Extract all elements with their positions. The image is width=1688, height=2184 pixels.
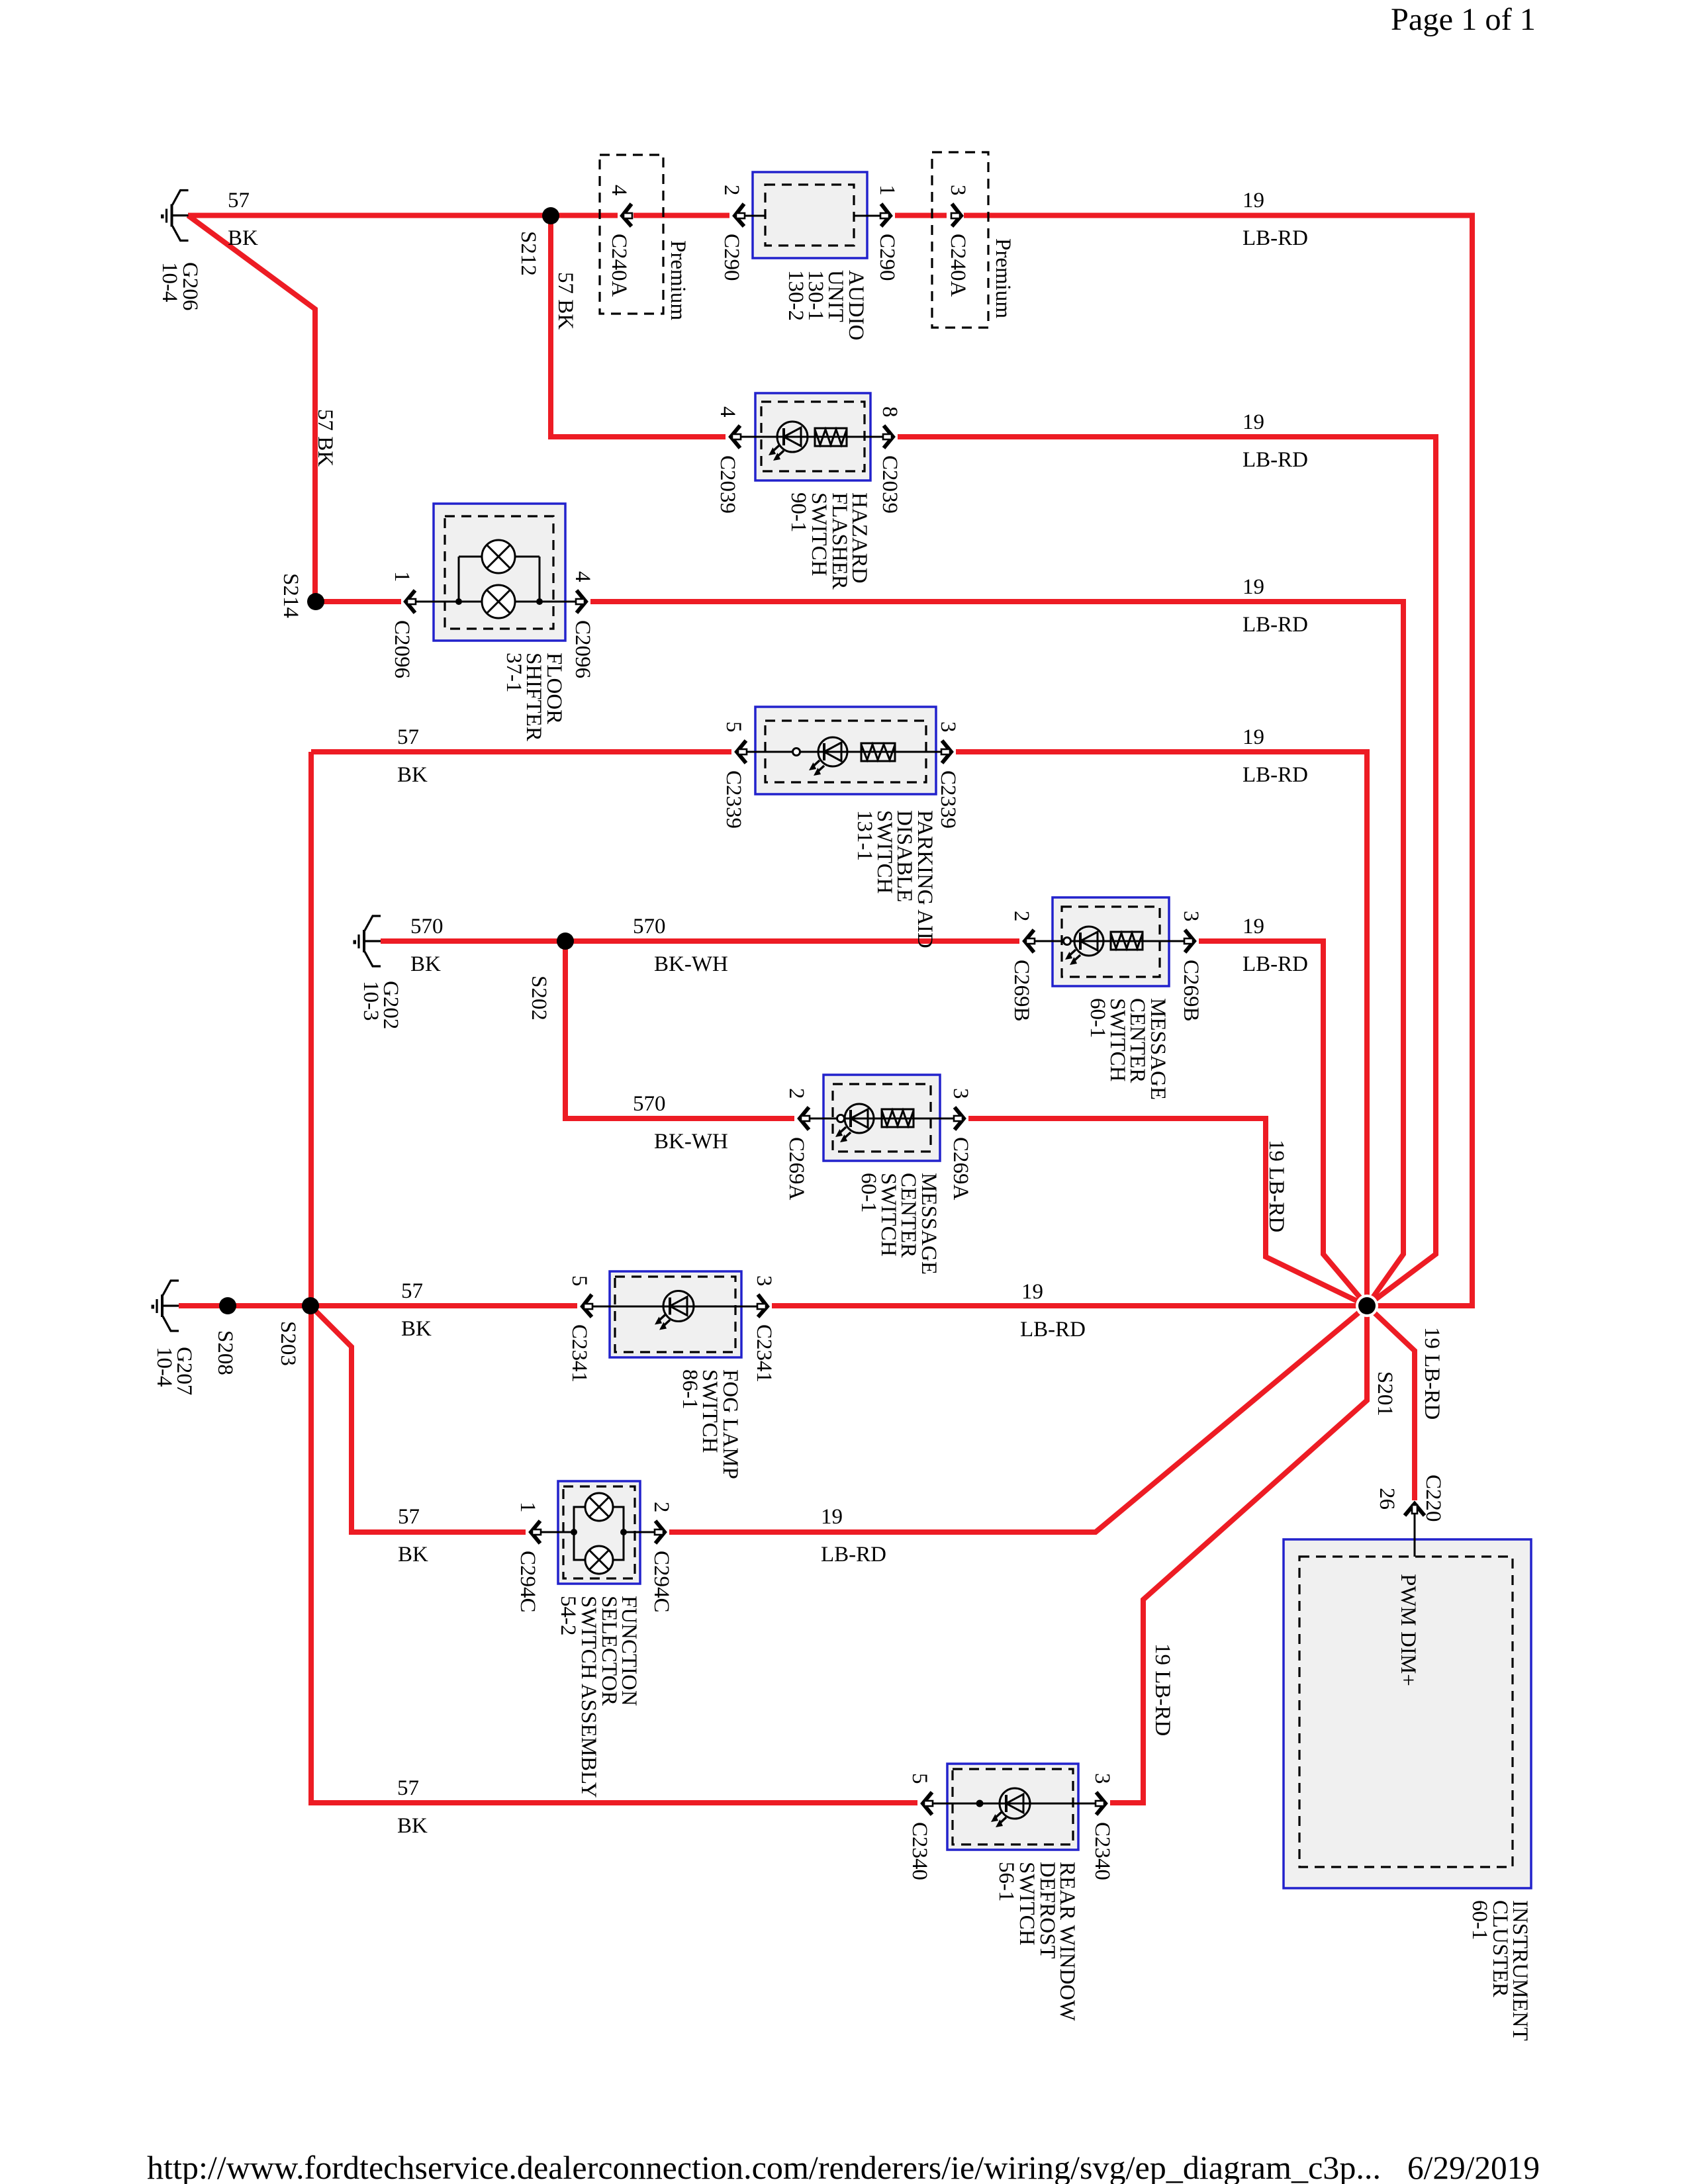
function selector branch junction left: [571, 1529, 577, 1535]
connector C2340 pin 3 arrow: [1096, 1792, 1105, 1815]
svg-text:C269B: C269B: [1179, 960, 1203, 1022]
svg-text:BK: BK: [398, 1543, 428, 1567]
LED indicator in rear defrost switch: [991, 1788, 1030, 1827]
svg-text:C2340: C2340: [908, 1822, 931, 1880]
svg-text:57 BK: 57 BK: [313, 409, 337, 467]
svg-text:5: 5: [908, 1773, 931, 1784]
svg-text:C290: C290: [720, 234, 743, 281]
component AUDIO UNIT box: [753, 172, 867, 258]
svg-text:19: 19: [1243, 189, 1264, 212]
audio pin 2 lead: [744, 215, 765, 217]
svg-text:19: 19: [1243, 410, 1264, 434]
connector C240A dashed box (right): [932, 152, 988, 328]
svg-text:Premium: Premium: [666, 240, 690, 320]
svg-text:S212: S212: [516, 231, 540, 276]
svg-text:C2096: C2096: [571, 620, 594, 678]
splice S208: [219, 1297, 236, 1314]
floor shifter lamp branch right: [539, 557, 541, 602]
LED indicator in hazard flasher switch: [769, 422, 808, 461]
fog lamp switch internal lead: [588, 1306, 757, 1308]
svg-text:1: 1: [875, 185, 899, 196]
svg-text:54-2: 54-2: [556, 1596, 580, 1636]
svg-text:LB-RD: LB-RD: [1243, 448, 1308, 472]
connector C290 pin 1 arrow: [880, 204, 890, 226]
function selector branch junction right: [620, 1529, 627, 1535]
svg-text:Page 1 of 1: Page 1 of 1: [1391, 2, 1536, 37]
svg-text:LB-RD: LB-RD: [1020, 1318, 1086, 1342]
wire: audio pin1 to C240A premium: [895, 213, 947, 218]
ground G202: [353, 916, 381, 966]
wire 19 LB-RD: S201 to instrument cluster C220: [1367, 1306, 1415, 1500]
floor shifter branch junction left: [455, 598, 462, 605]
svg-text:26: 26: [1375, 1488, 1399, 1510]
svg-text:19: 19: [1243, 725, 1264, 749]
floor shifter branch junction right: [536, 598, 543, 605]
svg-text:C2039: C2039: [716, 455, 739, 514]
resistor in message center switch A: [882, 1109, 914, 1127]
svg-text:S201: S201: [1373, 1371, 1397, 1416]
wire 57 BK: G206 diagonal down to S214: [188, 216, 315, 602]
svg-text:3: 3: [936, 721, 960, 733]
svg-text:S203: S203: [276, 1321, 300, 1366]
connector C2341 pin 3 arrow: [757, 1295, 767, 1317]
svg-text:S202: S202: [527, 976, 551, 1021]
component REAR WINDOW DEFROST SWITCH box: [947, 1764, 1078, 1850]
svg-text:4: 4: [607, 185, 631, 196]
wire 19 LB-RD: fog lamp switch to S201: [772, 1303, 1365, 1308]
rear defrost inner dashed box: [953, 1769, 1073, 1844]
wire 57 BK: G206 to S212 segment: [188, 213, 618, 218]
svg-text:570: 570: [410, 915, 444, 938]
svg-text:S214: S214: [279, 573, 303, 618]
LED indicator in message center switch B: [1065, 927, 1103, 965]
wire 57 BK: to parking aid disable switch pin 5: [311, 749, 731, 754]
svg-text:LB-RD: LB-RD: [1243, 226, 1308, 250]
wire 19 LB-RD: audio unit to S201: [964, 216, 1472, 1306]
svg-text:131-1: 131-1: [853, 810, 876, 861]
lamp 1 in function selector: [585, 1493, 613, 1521]
svg-text:Premium: Premium: [991, 238, 1015, 318]
svg-text:5: 5: [567, 1275, 591, 1287]
svg-text:C220: C220: [1421, 1475, 1445, 1522]
wire 57 BK: C240A to C290 segment: [633, 213, 729, 218]
svg-text:2: 2: [784, 1088, 808, 1099]
instrument cluster inner dashed box: [1299, 1557, 1513, 1867]
splice S212: [542, 207, 559, 224]
connector C2039 pin 4 arrow: [731, 426, 741, 448]
svg-text:57: 57: [397, 725, 419, 749]
svg-text:C240A: C240A: [946, 234, 970, 297]
svg-text:PWM DIM+: PWM DIM+: [1396, 1574, 1420, 1686]
function selector lead left: [536, 1531, 574, 1533]
function selector inner dashed box: [563, 1486, 635, 1578]
splice S201: [1358, 1297, 1376, 1314]
svg-text:BK-WH: BK-WH: [654, 952, 728, 976]
svg-text:BK: BK: [397, 1814, 428, 1838]
splice S214: [307, 593, 324, 610]
resistor in hazard flasher switch: [815, 428, 847, 446]
svg-text:2: 2: [720, 185, 743, 196]
svg-text:C240A: C240A: [607, 234, 631, 297]
component MESSAGE CENTER SWITCH box (C269A): [823, 1075, 940, 1161]
wire 19 LB-RD: S201 down to rear defrost pin 3: [1110, 1306, 1367, 1803]
component FOG LAMP SWITCH box: [610, 1271, 741, 1357]
splice S203: [302, 1297, 319, 1314]
connector C240A arrow (right): [951, 204, 961, 226]
svg-text:19: 19: [1021, 1280, 1043, 1304]
component MESSAGE CENTER SWITCH box (C269B): [1053, 897, 1169, 986]
svg-text:1: 1: [516, 1502, 539, 1513]
svg-text:LB-RD: LB-RD: [1243, 952, 1308, 976]
svg-text:C2339: C2339: [936, 770, 960, 829]
svg-text:LB-RD: LB-RD: [1243, 613, 1308, 637]
component PARKING AID DISABLE SWITCH box: [755, 707, 936, 794]
hazard flasher inner dashed box: [761, 402, 865, 471]
svg-text:19 LB-RD: 19 LB-RD: [1150, 1643, 1174, 1736]
connector C240A arrow (left): [622, 204, 632, 226]
message center switch A inner dashed box: [833, 1084, 931, 1152]
connector C269B pin 2 arrow: [1025, 930, 1035, 952]
svg-text:6/29/2019: 6/29/2019: [1407, 2149, 1540, 2184]
svg-text:LB-RD: LB-RD: [1243, 763, 1308, 787]
connector C2339 pin 3 arrow: [941, 741, 951, 763]
wire 19 LB-RD: message center switch C269B to S201: [1199, 941, 1367, 1306]
lamp 2 in floor shifter: [482, 585, 515, 618]
component FUNCTION SELECTOR SWITCH ASSEMBLY box: [558, 1481, 640, 1584]
wire 57 BK: G207 through S208 S203 to fog lamp switch pin 5: [179, 1303, 577, 1308]
LED indicator in fog lamp switch: [655, 1291, 694, 1330]
hazard flasher internal lead: [736, 436, 883, 438]
message center switch A internal lead: [805, 1118, 954, 1120]
svg-text:570: 570: [633, 915, 666, 938]
svg-text:4: 4: [571, 571, 594, 582]
wire 57 BK: S203 branch to function selector pin 1: [311, 1306, 526, 1532]
svg-text:3: 3: [1090, 1773, 1114, 1784]
wire 19 LB-RD: function selector to S201: [669, 1306, 1367, 1532]
svg-text:19: 19: [1243, 915, 1264, 938]
LED indicator in parking aid switch: [809, 737, 847, 776]
svg-text:C2339: C2339: [722, 770, 745, 829]
parking aid inner dashed box: [765, 721, 926, 782]
switch contact in message center switch B: [1064, 938, 1071, 945]
svg-text:57 BK: 57 BK: [553, 272, 577, 330]
svg-text:C290: C290: [875, 234, 899, 281]
component HAZARD FLASHER SWITCH box: [755, 393, 870, 480]
connector C2340 pin 5 arrow: [923, 1792, 933, 1815]
wire 57 BK: vertical through S203 to defrost pin 5: [311, 752, 917, 1803]
svg-text:1: 1: [390, 571, 414, 582]
message center switch B internal lead: [1030, 940, 1184, 942]
wire 57 BK: S212 down to hazard flasher pin 4: [551, 216, 726, 437]
splice S202: [557, 933, 574, 950]
lamp 1 in floor shifter: [482, 540, 515, 573]
svg-text:19: 19: [1243, 575, 1264, 599]
resistor in parking aid switch: [861, 743, 895, 761]
wire 570 BK-WH: S202 down to message center switch C269A pin 2: [565, 941, 794, 1118]
svg-text:3: 3: [752, 1275, 776, 1287]
wire 57 BK: S214 to floor shifter pin 1: [316, 599, 401, 604]
svg-text:C294C: C294C: [649, 1551, 673, 1613]
svg-text:C269A: C269A: [949, 1137, 972, 1201]
connector C290 pin 2 arrow: [735, 204, 745, 226]
rear defrost internal lead: [928, 1803, 1096, 1805]
wire 19 LB-RD: message center switch C269A to S201: [968, 1118, 1367, 1306]
svg-text:BK-WH: BK-WH: [654, 1130, 728, 1154]
wire 570 BK / BK-WH: G202 through S202 to message center switch pin 2: [381, 938, 1019, 944]
wire 19 LB-RD: parking aid switch to S201: [956, 752, 1367, 1306]
svg-text:BK: BK: [397, 763, 428, 787]
floor shifter inner dashed box: [445, 516, 553, 629]
svg-text:BK: BK: [401, 1317, 432, 1341]
connector C2339 pin 5 arrow: [737, 741, 747, 763]
svg-text:19 LB-RD: 19 LB-RD: [1264, 1140, 1288, 1232]
ground G206: [161, 191, 189, 241]
parking aid internal lead: [742, 751, 941, 753]
wire 19 LB-RD: hazard flasher to S201: [898, 437, 1436, 1306]
svg-text:37-1: 37-1: [502, 653, 526, 693]
svg-text:570: 570: [633, 1092, 666, 1116]
svg-text:57: 57: [397, 1776, 419, 1800]
svg-text:C2340: C2340: [1090, 1822, 1114, 1880]
junction in rear defrost switch: [976, 1800, 984, 1807]
svg-text:57: 57: [401, 1279, 423, 1303]
svg-text:60-1: 60-1: [1086, 998, 1109, 1038]
svg-text:C2096: C2096: [390, 620, 414, 678]
svg-text:2: 2: [1009, 911, 1033, 922]
connector C294C pin 2 arrow: [655, 1521, 665, 1543]
svg-text:56-1: 56-1: [994, 1862, 1018, 1902]
svg-text:3: 3: [949, 1088, 972, 1099]
svg-text:57: 57: [228, 189, 250, 212]
connector C240A dashed box (left): [600, 155, 663, 314]
LED indicator in message center switch A: [835, 1104, 874, 1142]
component INSTRUMENT CLUSTER box: [1284, 1539, 1531, 1888]
function selector lamp loop: [574, 1507, 624, 1560]
svg-text:90-1: 90-1: [786, 492, 810, 533]
svg-text:8: 8: [878, 406, 902, 418]
connector C269A pin 2 arrow: [800, 1107, 810, 1130]
floor shifter lamp branch left: [458, 557, 460, 602]
svg-text:130-2: 130-2: [784, 270, 808, 321]
svg-text:C2341: C2341: [567, 1324, 591, 1383]
component FLOOR SHIFTER box: [434, 504, 565, 641]
fog lamp switch inner dashed box: [615, 1277, 735, 1352]
svg-text:C269A: C269A: [784, 1137, 808, 1201]
svg-text:C2341: C2341: [752, 1324, 776, 1383]
svg-text:19 LB-RD: 19 LB-RD: [1420, 1327, 1444, 1420]
connector C2096 pin 4 arrow: [576, 590, 586, 613]
ground G207: [152, 1281, 179, 1331]
svg-text:C294C: C294C: [516, 1551, 539, 1613]
instrument cluster C220 lead: [1414, 1512, 1416, 1557]
svg-text:http://www.fordtechservice.dea: http://www.fordtechservice.dealerconnect…: [147, 2149, 1381, 2184]
lamp 2 in function selector: [585, 1546, 613, 1574]
connector C269A pin 3 arrow: [954, 1107, 964, 1130]
svg-text:3: 3: [1179, 911, 1203, 922]
floor shifter internal lead: [410, 601, 577, 603]
connector C2039 pin 8 arrow: [883, 426, 893, 448]
svg-text:C269B: C269B: [1009, 960, 1033, 1022]
message center switch B inner dashed box: [1062, 907, 1160, 977]
connector C2096 pin 1 arrow: [406, 590, 416, 613]
svg-text:60-1: 60-1: [1468, 1900, 1491, 1940]
floor shifter lamp branch top: [459, 556, 539, 558]
svg-text:BK: BK: [228, 226, 258, 250]
svg-text:S208: S208: [213, 1330, 237, 1375]
svg-text:10-4: 10-4: [152, 1347, 176, 1387]
svg-text:C2039: C2039: [878, 455, 902, 514]
svg-text:5: 5: [722, 721, 745, 733]
audio pin 1 lead: [854, 215, 883, 217]
connector C269B pin 3 arrow: [1184, 930, 1194, 952]
connector C2341 pin 5 arrow: [583, 1295, 592, 1317]
connector C294C pin 1 arrow: [531, 1521, 541, 1543]
svg-text:10-3: 10-3: [359, 981, 383, 1021]
audio unit inner dashed box: [765, 185, 854, 246]
node S201 junction white ring: [1356, 1295, 1378, 1317]
svg-text:BK: BK: [410, 952, 441, 976]
resistor in message center switch B: [1111, 932, 1143, 950]
svg-text:3: 3: [946, 185, 970, 196]
svg-text:LB-RD: LB-RD: [821, 1543, 886, 1567]
svg-text:2: 2: [649, 1502, 673, 1513]
svg-text:4: 4: [716, 406, 739, 418]
svg-text:60-1: 60-1: [857, 1173, 880, 1213]
switch contact in message center switch A: [837, 1115, 845, 1122]
function selector lead right: [624, 1531, 655, 1533]
svg-text:86-1: 86-1: [678, 1369, 702, 1410]
switch contact in parking aid switch: [793, 749, 800, 756]
svg-text:57: 57: [398, 1505, 420, 1529]
wire 19 LB-RD: floor shifter to S201: [590, 602, 1403, 1306]
connector C220 pin 26 arrow: [1405, 1504, 1425, 1516]
svg-text:10-4: 10-4: [158, 262, 181, 302]
svg-text:19: 19: [821, 1505, 843, 1529]
